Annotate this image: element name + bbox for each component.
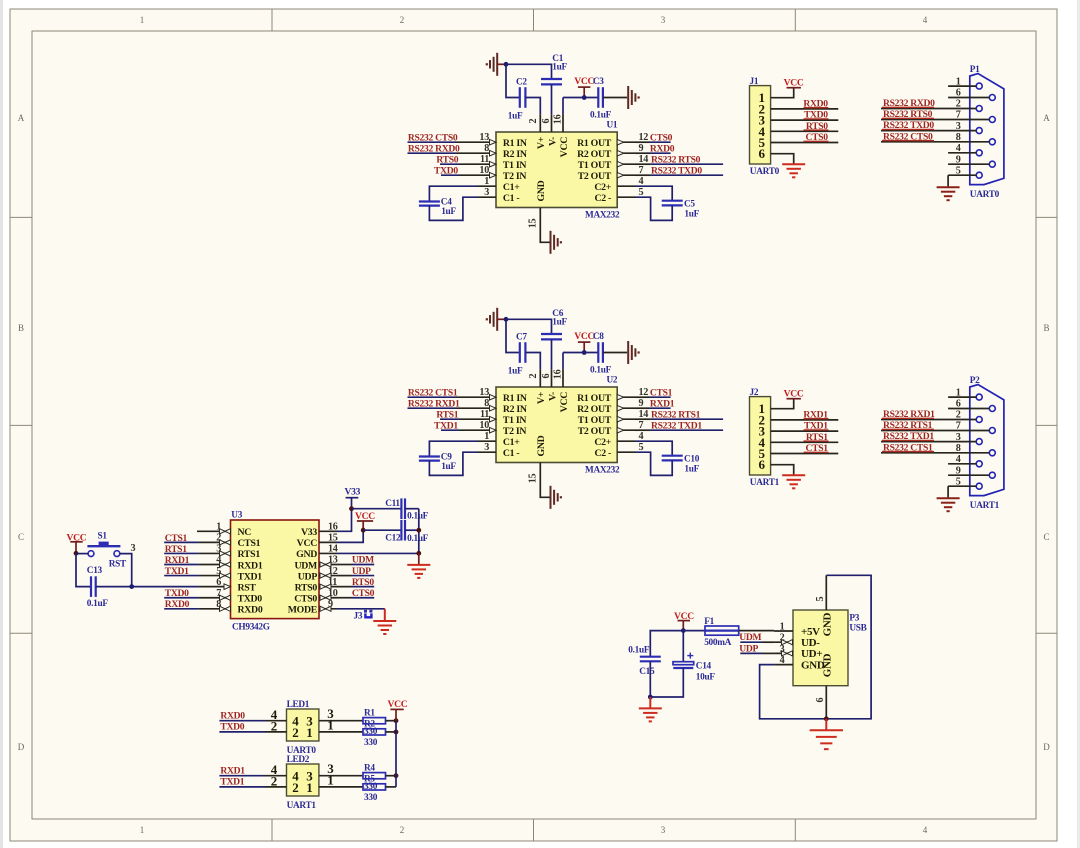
node CTS1 [806, 443, 829, 454]
node RS232 RXD0 [408, 143, 460, 154]
wire pin 6 of J2 to ground [771, 465, 794, 475]
svg-text:C10: C10 [684, 454, 700, 464]
node RTS0 [352, 577, 374, 588]
svg-text:RTS0: RTS0 [436, 154, 458, 165]
resistor R4 330 [363, 763, 386, 778]
pin 3 of U2 [478, 442, 497, 453]
svg-text:RS232 TXD0: RS232 TXD0 [651, 165, 702, 176]
pin 1 of J1 to VCC [771, 88, 794, 98]
LED module LED1 [287, 700, 319, 756]
svg-text:CTS1: CTS1 [165, 533, 188, 544]
svg-text:U2: U2 [607, 376, 618, 386]
svg-text:1: 1 [306, 725, 312, 740]
pin 5 of P1 [948, 165, 976, 176]
wire net RXD0 [636, 152, 671, 154]
pin 11 of U2 [478, 409, 497, 422]
svg-text:2: 2 [956, 99, 961, 110]
svg-text:R2 OUT: R2 OUT [577, 149, 612, 160]
svg-text:RST: RST [238, 582, 257, 593]
svg-text:MODE: MODE [288, 605, 318, 616]
svg-text:7: 7 [956, 421, 961, 432]
svg-text:4: 4 [923, 15, 928, 25]
svg-text:C: C [1043, 532, 1049, 542]
pin 7 of P2 [881, 421, 989, 432]
node RS232 RXD1 [408, 398, 460, 409]
svg-text:RXD0: RXD0 [650, 143, 675, 154]
wire net UDP [740, 652, 774, 654]
pin 1 of U3 [197, 522, 231, 534]
capacitor C4 [419, 197, 457, 217]
svg-text:3: 3 [780, 644, 785, 655]
wire pin5 shield loop [826, 575, 871, 719]
wire pin16 V33 [337, 509, 352, 532]
svg-text:TXD0: TXD0 [238, 594, 263, 605]
svg-text:1uF: 1uF [684, 464, 699, 474]
wire C15 to ground [649, 661, 651, 697]
pin 5 of P2 [948, 476, 976, 487]
capacitor C5 [662, 199, 700, 219]
svg-text:1: 1 [327, 772, 333, 787]
node RS232 RTS1 [651, 409, 701, 420]
svg-text:RTS1: RTS1 [165, 544, 187, 555]
node RXD0 [803, 99, 828, 110]
ground (earth, left of C1) [486, 53, 506, 76]
svg-text:UDM: UDM [295, 560, 318, 571]
svg-text:8: 8 [484, 398, 489, 409]
pin 2 of U3 [199, 533, 231, 545]
wire pin1 of LED1 to R2 [319, 717, 363, 732]
svg-text:U3: U3 [231, 511, 242, 521]
svg-text:VCC: VCC [574, 76, 594, 87]
node RTS0 [436, 154, 458, 165]
svg-text:RTS1: RTS1 [806, 432, 828, 443]
wire pin1 to C4 [429, 186, 477, 201]
ground (earth, below pin 15) [551, 231, 563, 254]
junction node ground [648, 695, 653, 700]
svg-text:15: 15 [328, 533, 338, 544]
value 330 of R1 [364, 727, 378, 737]
svg-text:10: 10 [328, 588, 338, 599]
svg-text:C12: C12 [385, 534, 401, 544]
svg-text:T1 IN: T1 IN [503, 160, 526, 171]
wire R1 to VCC rail [386, 720, 397, 722]
wire net RXD1 [219, 762, 286, 777]
ground (earth, left of C6) [486, 308, 506, 331]
svg-text:C4: C4 [441, 197, 452, 207]
junction node RST [129, 584, 134, 589]
switch S1 [87, 532, 135, 570]
svg-text:2: 2 [780, 633, 785, 644]
wire C3 to ground [603, 97, 627, 99]
svg-text:CTS1: CTS1 [238, 538, 261, 549]
svg-text:A: A [18, 113, 25, 123]
svg-text:T2 IN: T2 IN [503, 426, 526, 437]
node RS232 TXD0 [883, 120, 934, 131]
op-amp U2 MAX232 transceiver body [496, 376, 620, 476]
wire net CTS0 [337, 597, 374, 599]
svg-text:T2 IN: T2 IN [503, 171, 526, 182]
node UDP [352, 566, 371, 577]
svg-text:R1 IN: R1 IN [503, 393, 527, 404]
svg-text:6: 6 [815, 698, 826, 703]
pin 2 V+ of U2 [528, 369, 541, 387]
wire pin4 GND loop [760, 665, 827, 719]
wire net UDP [337, 575, 374, 577]
svg-text:C8: C8 [593, 332, 604, 342]
svg-text:9: 9 [956, 154, 961, 165]
svg-text:RTS1: RTS1 [238, 549, 261, 560]
svg-text:1: 1 [780, 621, 785, 632]
svg-text:UART0: UART0 [970, 190, 1000, 200]
wire pin4 to C5 [636, 186, 673, 200]
svg-text:C15: C15 [639, 667, 655, 677]
svg-text:UDP: UDP [298, 571, 318, 582]
svg-text:C14: C14 [696, 662, 712, 672]
wire to ground [649, 697, 651, 708]
pin 8 of U3 [199, 599, 231, 611]
svg-text:0.1uF: 0.1uF [590, 110, 612, 120]
wire net TXD0 [219, 718, 286, 733]
svg-text:1: 1 [956, 76, 961, 87]
wire C9 to pin3 [429, 452, 477, 475]
wire VCC to C15 [650, 631, 683, 657]
svg-text:T1 OUT: T1 OUT [578, 415, 612, 426]
svg-text:J1: J1 [750, 77, 759, 87]
svg-text:TXD1: TXD1 [238, 571, 263, 582]
svg-text:T1 IN: T1 IN [503, 415, 526, 426]
pin 13 of U3 [319, 555, 338, 567]
svg-text:R2 IN: R2 IN [503, 404, 527, 415]
svg-text:RXD0: RXD0 [238, 605, 263, 616]
pin 14 of U2 [617, 409, 648, 422]
svg-text:RTS0: RTS0 [806, 121, 828, 132]
svg-text:TXD0: TXD0 [165, 588, 189, 599]
capacitor C7 1uF [508, 333, 528, 377]
pin 8 of P2 [881, 443, 989, 454]
svg-text:C9: C9 [441, 452, 452, 462]
node RXD1 [165, 555, 190, 566]
power port VCC [574, 331, 594, 352]
svg-text:D: D [1043, 742, 1050, 752]
svg-text:LED1: LED1 [287, 700, 310, 710]
svg-text:J2: J2 [750, 388, 759, 398]
ground GND [810, 730, 843, 749]
svg-text:C1+: C1+ [503, 437, 520, 448]
svg-text:1: 1 [327, 717, 333, 732]
svg-text:1: 1 [140, 15, 145, 25]
capacitor C6 1uF [541, 309, 568, 340]
wire pin1 to C9 [429, 441, 477, 456]
pin 3 of P1 [881, 121, 976, 132]
pin 6 of P2 [948, 399, 989, 410]
op-amp U3 CH9342G body [231, 511, 320, 633]
svg-text:TXD1: TXD1 [434, 420, 458, 431]
node TXD1 [804, 421, 828, 432]
wire net TXD0 [164, 597, 199, 599]
svg-text:16: 16 [553, 369, 564, 379]
ground (earth, right of C8) [628, 341, 640, 364]
svg-text:C11: C11 [385, 499, 400, 509]
pin 4 of U1 [617, 176, 643, 187]
svg-text:1: 1 [956, 387, 961, 398]
connector P1 DB9 UART0 [970, 65, 1004, 200]
wire pin3 of LED1 to R1 [319, 706, 363, 721]
svg-text:TXD0: TXD0 [804, 110, 828, 121]
svg-text:RS232 TXD1: RS232 TXD1 [883, 431, 934, 442]
power port VCC [67, 532, 87, 553]
node RXD1 [803, 410, 828, 421]
wire pin 4 of J1 net RTS0 [771, 130, 839, 131]
node RXD1 [220, 766, 245, 777]
wire pin 5 of J1 net CTS0 [771, 141, 839, 142]
svg-text:V33: V33 [301, 527, 317, 538]
svg-text:RS232 CTS1: RS232 CTS1 [408, 387, 458, 398]
svg-text:R4: R4 [364, 763, 375, 773]
svg-text:0.1uF: 0.1uF [628, 645, 650, 655]
svg-text:3: 3 [956, 121, 961, 132]
capacitor C12 0.1uF [385, 520, 428, 544]
wire net RS232_RXD0 [408, 152, 478, 154]
wire pin 6 of J1 to ground [771, 154, 794, 164]
wire net TXD0 [441, 174, 478, 176]
svg-text:15: 15 [528, 219, 539, 229]
svg-text:VCC: VCC [388, 699, 408, 710]
svg-text:4: 4 [923, 825, 928, 835]
ground GND [407, 565, 430, 578]
svg-text:CH9342G: CH9342G [232, 623, 270, 633]
junction node [504, 317, 509, 322]
pin 16 VCC of U2 [553, 369, 564, 387]
capacitor C15 0.1uF [628, 645, 661, 677]
junction node [394, 730, 399, 735]
wire VCC to S1 [76, 553, 88, 555]
ground GND [782, 164, 805, 177]
wire pin 3 of J2 net TXD1 [771, 430, 839, 431]
svg-text:F1: F1 [704, 617, 714, 627]
pin 3 of U3 [199, 544, 231, 556]
pin 3 of P3 [774, 644, 793, 656]
svg-text:C2+: C2+ [594, 437, 611, 448]
wire F1 to pin1 P3 [739, 630, 774, 632]
junction node VCC [361, 528, 366, 533]
junction node [504, 62, 509, 67]
wire pin16 to VCC and C3 [563, 98, 598, 115]
svg-text:8: 8 [484, 143, 489, 154]
pin 4 of P2 [948, 454, 976, 465]
svg-text:RST: RST [109, 559, 127, 569]
node TXD0 [220, 722, 244, 733]
pin 1 of U1 [478, 176, 497, 187]
svg-text:CTS1: CTS1 [650, 387, 673, 398]
resistor R2 330 [363, 720, 386, 735]
svg-text:RXD1: RXD1 [165, 555, 190, 566]
node RXD1 [650, 398, 675, 409]
pin 2 V+ of U1 [528, 114, 541, 132]
svg-text:RS232 TXD1: RS232 TXD1 [651, 420, 702, 431]
svg-text:1: 1 [484, 431, 489, 442]
pin 12 of U1 [617, 132, 648, 145]
pin 7 of U2 [617, 420, 643, 433]
svg-text:6: 6 [541, 374, 552, 379]
node RS232 CTS0 [883, 131, 933, 142]
pin 6 of P3 [815, 686, 826, 719]
svg-text:UART1: UART1 [970, 501, 1000, 511]
svg-text:0.1uF: 0.1uF [87, 599, 109, 609]
svg-text:A: A [1043, 113, 1050, 123]
pin 14 of U3 [319, 544, 338, 555]
wire ground to C6 [506, 319, 552, 334]
svg-text:RS232 RTS0: RS232 RTS0 [883, 109, 933, 120]
wire to ground [418, 553, 420, 564]
junction node [394, 718, 399, 723]
svg-text:UART1: UART1 [287, 801, 317, 811]
svg-text:6: 6 [956, 399, 961, 410]
svg-text:J3: J3 [354, 611, 363, 621]
svg-text:TXD1: TXD1 [165, 566, 189, 577]
jumper J3 [354, 610, 373, 622]
svg-text:MAX232: MAX232 [585, 465, 620, 475]
pin 15 GND of U1 [528, 208, 550, 243]
svg-text:330: 330 [364, 782, 378, 792]
svg-text:D: D [18, 742, 25, 752]
svg-text:RXD0: RXD0 [803, 99, 828, 110]
svg-text:UART0: UART0 [750, 167, 780, 177]
wire net RS232_CTS1 [408, 396, 478, 398]
pin 9 of U1 [617, 143, 643, 156]
svg-text:TXD0: TXD0 [220, 722, 244, 733]
svg-text:C5: C5 [684, 199, 695, 209]
wire pin1 of LED2 to R5 [319, 772, 363, 787]
fuse F1 500mA [683, 617, 738, 648]
pin 12 of U3 [319, 566, 338, 578]
svg-text:8: 8 [956, 443, 961, 454]
wire net UDM [740, 641, 774, 643]
pin 1 of J2 to VCC [771, 399, 794, 409]
wire C2 to pin2 [525, 98, 540, 115]
capacitor C11 0.1uF [385, 498, 428, 521]
svg-text:7: 7 [216, 588, 221, 599]
svg-text:GND: GND [821, 653, 833, 677]
capacitor C1 1uF [541, 54, 568, 85]
svg-text:2: 2 [292, 780, 298, 795]
svg-text:16: 16 [553, 114, 564, 124]
wire pin4 to C10 [636, 441, 673, 455]
svg-text:4: 4 [780, 655, 785, 666]
node RS232 TXD1 [651, 420, 702, 431]
svg-text:11: 11 [480, 409, 489, 420]
svg-text:RS232 RXD1: RS232 RXD1 [408, 398, 460, 409]
svg-text:5: 5 [216, 566, 221, 577]
svg-text:RTS0: RTS0 [352, 577, 374, 588]
svg-text:C1 -: C1 - [503, 193, 520, 204]
svg-text:330: 330 [364, 793, 378, 803]
wire C4 to pin3 [429, 197, 477, 220]
svg-text:P2: P2 [970, 376, 980, 386]
LED module LED2 [287, 755, 319, 811]
node RXD0 [650, 143, 675, 154]
wire C5 to pin5 [636, 197, 673, 220]
svg-text:C2 -: C2 - [595, 448, 612, 459]
node RS232 CTS1 [883, 442, 933, 453]
svg-text:2: 2 [292, 725, 298, 740]
svg-text:2: 2 [528, 119, 539, 124]
pin 7 of U3 [199, 588, 231, 600]
wire net RXD1 [164, 564, 199, 566]
svg-text:V-: V- [547, 392, 558, 401]
pin 6 of U3 [199, 577, 231, 590]
junction node GND [416, 551, 421, 556]
node TXD1 [220, 777, 244, 788]
capacitor C14 10uF polarized [673, 653, 715, 683]
pin 4 of P1 [948, 143, 976, 154]
svg-text:1: 1 [216, 522, 221, 533]
pin 7 of U1 [617, 165, 643, 178]
node RS232 CTS0 [408, 132, 458, 143]
svg-text:RS232 CTS1: RS232 CTS1 [883, 442, 933, 453]
wire net RTS1 [164, 552, 199, 554]
svg-text:RS232 RTS1: RS232 RTS1 [651, 409, 701, 420]
node TXD1 [165, 566, 189, 577]
pin 13 of U1 [478, 132, 497, 145]
svg-text:3: 3 [216, 544, 221, 555]
svg-text:8: 8 [216, 599, 221, 610]
pin 2 of P3 [774, 633, 793, 645]
svg-text:GND: GND [536, 180, 547, 201]
power port VCC [355, 511, 375, 530]
svg-text:3: 3 [131, 543, 136, 554]
wire ground to C1 [506, 64, 552, 79]
pin 5 of P3 shield [815, 575, 826, 610]
capacitor C13 0.1uF [87, 566, 109, 609]
svg-text:1uF: 1uF [552, 62, 567, 72]
svg-text:NC: NC [238, 527, 252, 538]
svg-text:GND: GND [296, 549, 317, 560]
node UDM [352, 555, 374, 566]
svg-text:12: 12 [328, 566, 338, 577]
pin 3 of U1 [478, 187, 497, 198]
svg-text:11: 11 [480, 154, 489, 165]
svg-text:RXD1: RXD1 [650, 398, 675, 409]
wire R4 to VCC rail [386, 775, 397, 777]
node RTS0 [806, 121, 828, 132]
wire R5 to VCC rail [386, 786, 397, 788]
svg-text:4: 4 [956, 143, 961, 154]
wire pin15 VCC [337, 530, 363, 542]
node RTS1 [806, 432, 828, 443]
connector P3 USB [793, 610, 867, 686]
svg-text:C1 -: C1 - [503, 448, 520, 459]
svg-text:UDM: UDM [352, 555, 374, 566]
wire net RTS1 [440, 418, 478, 420]
svg-text:RS232 RTS0: RS232 RTS0 [651, 154, 701, 165]
wire net RTS0 [337, 586, 374, 588]
svg-text:C1+: C1+ [503, 182, 520, 193]
wire pin16 to VCC and C8 [563, 353, 598, 370]
wire C8 to ground [603, 352, 627, 354]
wire net UDM [337, 564, 374, 566]
wire VCC rail [395, 721, 397, 787]
wire pin 3 of J1 net TXD0 [771, 119, 839, 120]
pin 1 of U2 [478, 431, 497, 442]
svg-text:1: 1 [484, 176, 489, 187]
pin 4 of U2 [617, 431, 643, 442]
svg-text:VCC: VCC [559, 137, 570, 158]
svg-text:4: 4 [956, 454, 961, 465]
node RS232 RTS1 [883, 420, 933, 431]
value 330 of R2 [364, 738, 378, 748]
svg-text:14: 14 [328, 544, 338, 555]
wire net RS232_RTS1 [636, 418, 724, 420]
